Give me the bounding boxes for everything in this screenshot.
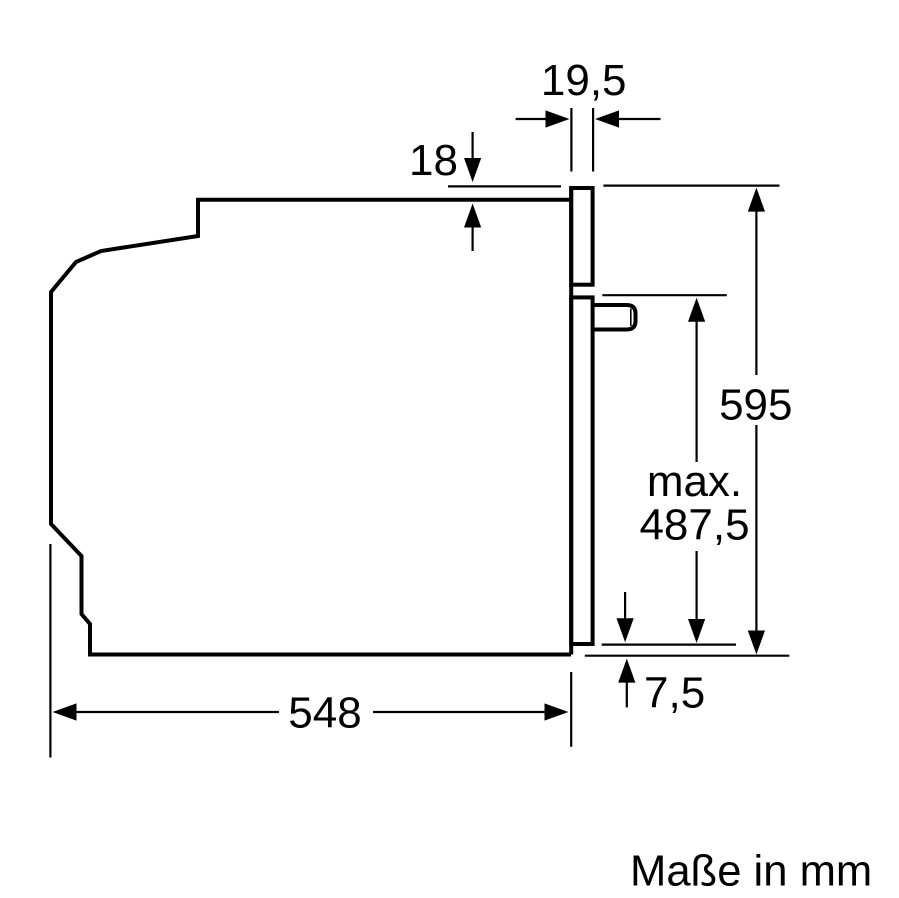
dim 548 extension line right [570, 672, 572, 747]
body outline [51, 200, 571, 655]
bottom reference line 595 [585, 655, 790, 657]
door lower section [571, 297, 592, 644]
dim 487,5 top arrowhead [688, 298, 705, 322]
dim 595 line [755, 211, 757, 632]
dim 19,5 left arrow line [516, 118, 547, 120]
top reference line 595 [603, 185, 779, 187]
svg-text:18: 18 [409, 136, 458, 185]
dim 19,5 extension line right [592, 108, 594, 172]
dim 595 bottom arrowhead [748, 631, 765, 655]
dim 18 down arrowhead [464, 158, 481, 182]
svg-text:7,5: 7,5 [644, 669, 705, 718]
halo 548 [279, 692, 373, 733]
dim 19,5 left arrowhead [546, 110, 570, 127]
dim 18 up arrowhead [464, 204, 481, 228]
svg-text:Maße in mm: Maße in mm [630, 847, 872, 895]
svg-text:max.: max. [647, 457, 742, 506]
max 487,5 top reference line [602, 294, 727, 296]
svg-text:595: 595 [719, 381, 792, 430]
oven front wall [569, 186, 573, 654]
dim 487,5 bottom arrowhead [688, 619, 705, 643]
dim 19,5 extension line left [570, 108, 572, 172]
dim 7,5 up arrowhead [618, 659, 635, 683]
door upper section [571, 188, 592, 285]
dim 7,5 up arrow [626, 681, 628, 707]
svg-text:19,5: 19,5 [541, 56, 627, 105]
dim 548 line [76, 711, 546, 713]
dim 18 reference line [448, 185, 561, 187]
max 487,5 bottom reference line [602, 643, 736, 645]
dim 548 left arrowhead [53, 703, 77, 720]
dim 19,5 right arrowhead [595, 110, 619, 127]
dim 595 top arrowhead [748, 188, 765, 212]
dim 548 extension line left [49, 544, 51, 758]
door bottom short arrowhead [617, 618, 634, 642]
halo 595 [719, 375, 793, 425]
svg-text:548: 548 [288, 689, 361, 738]
door bottom short arrow line [624, 592, 626, 620]
dim 19,5 right arrow line [618, 118, 661, 120]
dim 487,5 line [695, 321, 697, 621]
dim 18 up arrow line [472, 226, 474, 251]
dim 548 right arrowhead [545, 703, 569, 720]
knob [595, 305, 636, 330]
knob cap line [630, 309, 632, 327]
svg-text:487,5: 487,5 [639, 501, 749, 550]
dim 18 down arrow line [472, 132, 474, 160]
halo max 487,5 [638, 462, 751, 551]
